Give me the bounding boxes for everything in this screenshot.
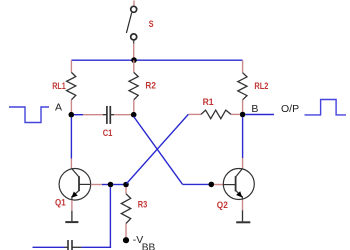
svg-text:RL1: RL1 bbox=[52, 81, 65, 91]
junction R3 top bbox=[123, 182, 129, 188]
junction switch/rail bbox=[131, 57, 137, 63]
junction Q2 base bbox=[209, 182, 215, 188]
transistor Q2 bbox=[223, 168, 254, 200]
wire between base junctions bbox=[113, 184, 123, 186]
svg-text:A: A bbox=[55, 102, 62, 114]
resistor R2 bbox=[129, 60, 138, 112]
ground Q2 emitter bbox=[236, 200, 250, 222]
svg-text:Q1: Q1 bbox=[55, 197, 66, 207]
svg-text:BB: BB bbox=[142, 241, 156, 250]
svg-text:C1: C1 bbox=[103, 128, 113, 138]
wire C1 to R2 bottom node bbox=[114, 114, 131, 116]
trigger capacitor bbox=[65, 240, 82, 250]
resistor R1 bbox=[188, 110, 240, 119]
resistor R3 bbox=[121, 187, 130, 237]
transistor Q1 bbox=[59, 168, 91, 200]
right output waveform bbox=[305, 100, 347, 115]
cross wire R3 node to R1 bbox=[127, 114, 189, 183]
resistor RL2 bbox=[238, 60, 247, 112]
left input waveform bbox=[9, 107, 49, 123]
wire node B down to Q2 collector bbox=[242, 117, 244, 168]
resistor RL1 bbox=[67, 60, 76, 112]
svg-text:RL2: RL2 bbox=[254, 81, 268, 91]
node B junction bbox=[240, 112, 246, 118]
wire Q1 base bbox=[91, 184, 102, 186]
svg-text:Q2: Q2 bbox=[217, 200, 228, 210]
wire Q1 base down to trigger cap bbox=[81, 187, 111, 247]
node A junction bbox=[69, 112, 75, 118]
junction Q1 base bbox=[108, 182, 114, 188]
svg-text:B: B bbox=[251, 103, 258, 115]
svg-text:S: S bbox=[149, 19, 154, 29]
wire node A to C1 bbox=[74, 114, 83, 116]
wire Q2 base stub bbox=[214, 184, 224, 186]
switch S bbox=[126, 1, 136, 61]
svg-text:O/P: O/P bbox=[281, 103, 299, 115]
svg-text:R1: R1 bbox=[203, 97, 214, 107]
terminal -VBB dot bbox=[123, 237, 129, 243]
capacitor C1 bbox=[103, 106, 114, 124]
cross wire R2 node to Q2 base bbox=[134, 117, 209, 185]
wire top rail bbox=[71, 59, 242, 61]
svg-text:R3: R3 bbox=[138, 199, 148, 209]
wire output O/P bbox=[245, 114, 274, 116]
svg-text:R2: R2 bbox=[145, 81, 156, 91]
node R2 bottom junction bbox=[131, 112, 137, 118]
wire trigger input bbox=[33, 246, 65, 248]
ground Q1 emitter bbox=[65, 200, 78, 222]
wire node A down to Q1 collector bbox=[70, 117, 72, 168]
